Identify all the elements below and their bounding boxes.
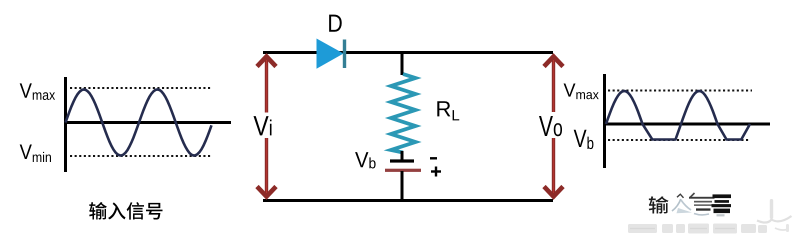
input Vmax dotted level line [70, 87, 211, 89]
garbled char 2 (pale 大-like strokes) [677, 194, 684, 198]
output clamped wave [606, 91, 750, 140]
output Vb dotted level line [608, 139, 750, 141]
Vo measurement arrow (double-headed, dark red) [544, 57, 563, 197]
faint watermark text band [628, 224, 767, 234]
faint watermark logo (vertical bar) [770, 199, 773, 219]
label Vmin (input) [20, 145, 51, 162]
caption 输出信号 (output signal, watermark-garbled): char 1 输 [649, 196, 669, 213]
label Vmax (output) [564, 84, 599, 100]
faint watermark logo (swoosh) [757, 216, 792, 223]
output waveform vertical axis [603, 74, 606, 168]
diode D cathode bar [343, 40, 346, 69]
input waveform horizontal axis [64, 121, 231, 124]
diode D (anode triangle) [317, 39, 344, 69]
battery minus sign [430, 157, 437, 159]
label Vb (output) [574, 130, 594, 149]
label Vi (white backed) [252, 113, 278, 139]
wire: resistor to battery [401, 151, 404, 160]
label Vb [355, 152, 376, 168]
battery plus sign [431, 170, 441, 172]
label Vo (white backed) [538, 112, 568, 138]
input Vmin dotted level line [70, 155, 211, 157]
label Vmax (input) [20, 83, 55, 100]
node: junction of diode branch and load branch (top) [401, 53, 404, 76]
output waveform horizontal axis [603, 123, 770, 126]
Vi measurement arrow (double-headed, dark red) [257, 57, 276, 197]
wire: battery to bottom wire [401, 171, 404, 200]
input waveform vertical axis [64, 77, 67, 172]
battery Vb bottom plate (positive, maroon) [385, 169, 421, 172]
input sine wave [66, 90, 212, 156]
label D [329, 15, 342, 32]
battery Vb top plate (negative) [390, 159, 414, 162]
garbled char 3 (eroded 信-like strokes) [690, 193, 695, 198]
output Vmax dotted level line [608, 89, 752, 91]
label RL [437, 101, 459, 120]
caption 输入信号 (input signal) [89, 202, 162, 220]
top wire [263, 51, 553, 54]
faint watermark logo (lower tick) [775, 228, 787, 230]
resistor RL (zigzag) [391, 74, 416, 153]
garbled char 4 (heavy bar stack) [712, 194, 732, 213]
bottom wire [263, 199, 553, 202]
